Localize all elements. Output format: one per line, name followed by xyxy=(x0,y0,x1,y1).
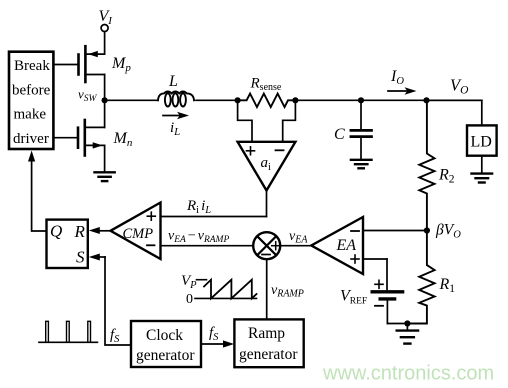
ground under LD xyxy=(472,172,493,174)
wire multiplier to ramp generator xyxy=(266,259,268,319)
sense tap left xyxy=(238,100,252,142)
node left of Rsense xyxy=(235,97,241,103)
node betaVO xyxy=(424,227,430,233)
wire gate Mn xyxy=(53,137,78,139)
svg-text:0: 0 xyxy=(186,292,193,307)
node right of Rsense xyxy=(292,97,298,103)
svg-text:driver: driver xyxy=(13,131,49,147)
wire latch Q output to driver xyxy=(32,159,47,231)
svg-text:CMP: CMP xyxy=(123,226,154,242)
svg-text:before: before xyxy=(12,83,51,99)
svg-text:LD: LD xyxy=(471,134,492,151)
svg-text:Break: Break xyxy=(14,58,50,74)
wire ai output down xyxy=(266,191,268,217)
wire LD to ground xyxy=(481,156,483,173)
svg-text:C: C xyxy=(334,126,345,143)
transistor Mn gate bar xyxy=(77,128,80,148)
transistor Mn channel bar xyxy=(84,120,87,156)
load LD box xyxy=(467,125,497,155)
svg-text:generator: generator xyxy=(136,347,195,364)
ground under C xyxy=(351,159,372,161)
transistor Mn source lead + arrow xyxy=(85,144,105,146)
svg-text:Ramp: Ramp xyxy=(248,325,285,342)
node vSW dot xyxy=(102,97,108,103)
wire vSW to inductor xyxy=(105,99,158,101)
wire gate Mp xyxy=(53,64,78,66)
main rail to output xyxy=(295,99,481,101)
op-amp EA xyxy=(363,230,427,232)
transistor Mp drain lead xyxy=(85,74,104,76)
transistor Mp channel bar xyxy=(84,46,87,82)
svg-text:Q: Q xyxy=(50,222,62,241)
latch SR xyxy=(47,220,88,268)
capacitor C xyxy=(360,100,362,130)
resistor Rsense xyxy=(238,94,296,107)
terminal VI circle xyxy=(101,25,108,32)
ramp waveform Vp xyxy=(195,297,257,299)
svg-text:S: S xyxy=(76,248,85,267)
ground under VREF/R1 xyxy=(406,324,408,331)
ramp generator box xyxy=(234,319,303,367)
svg-text:L: L xyxy=(168,73,178,90)
wire VO to LD xyxy=(427,100,482,125)
arrow iL xyxy=(163,115,183,117)
svg-text:R: R xyxy=(74,222,86,241)
wire RiiL to CMP xyxy=(161,216,267,218)
arrow clock to ramp xyxy=(201,343,228,345)
clock generator box xyxy=(131,321,201,367)
ground junction dot xyxy=(404,320,410,326)
sense tap right xyxy=(283,100,296,142)
inductor L xyxy=(158,92,194,101)
wire VI to Mp source xyxy=(104,31,106,54)
transistor Mp gate bar xyxy=(77,55,80,75)
wire inductor to Rsense node xyxy=(196,99,238,101)
wire CMP to latch R xyxy=(97,230,111,232)
multiplier node xyxy=(161,245,311,247)
ground under Mn xyxy=(95,171,115,173)
svg-text:generator: generator xyxy=(239,346,298,363)
wire Mp drain to node vSW xyxy=(104,75,106,128)
resistor R2 xyxy=(419,100,434,230)
svg-text:Clock: Clock xyxy=(146,327,183,344)
svg-text:make: make xyxy=(14,107,47,123)
driver box: Break before make driver xyxy=(9,52,53,149)
clock pulses waveform xyxy=(39,341,97,343)
transistor Mp source lead + arrow xyxy=(85,53,104,55)
svg-text:EA: EA xyxy=(336,237,357,254)
wire S input xyxy=(97,256,105,258)
comparator CMP xyxy=(111,203,161,260)
op-amp ai (current sense amp) xyxy=(238,142,296,191)
svg-text:www.cntronics.com: www.cntronics.com xyxy=(322,363,494,385)
battery VREF xyxy=(372,290,402,293)
resistor R1 xyxy=(407,231,434,324)
wire Mn source to ground xyxy=(104,145,106,171)
node VO junction xyxy=(423,97,429,103)
arrow IO xyxy=(388,90,410,92)
transistor Mn drain lead xyxy=(85,126,105,128)
